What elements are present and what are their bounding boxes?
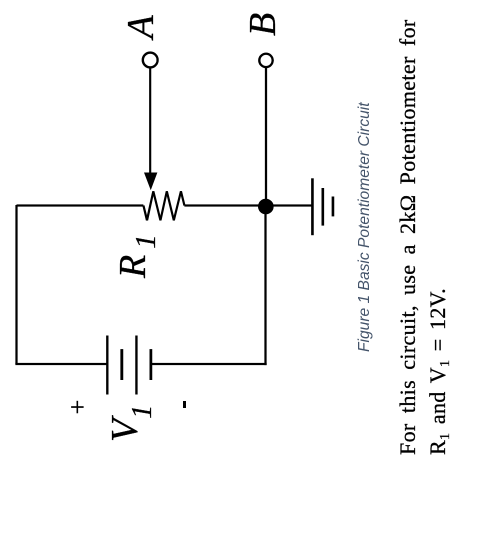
label terminal A	[122, 15, 160, 38]
paragraph line 2	[427, 288, 453, 455]
ground bar 1	[311, 178, 314, 235]
caption Figure 1 Basic Potentiometer Circuit	[357, 102, 373, 352]
battery V1 plate short bottom	[149, 349, 152, 380]
ground bar 2	[321, 188, 324, 226]
wire R1 bottom lead through junction to ground	[184, 204, 311, 206]
label minus sign of V1	[183, 401, 186, 407]
battery V1 plate short	[120, 349, 123, 380]
label plus sign of V1	[65, 397, 91, 417]
battery V1 plate long	[135, 336, 137, 395]
wiper arrow shaft (terminal A to R1)	[149, 67, 151, 175]
label R1	[114, 234, 161, 278]
node junction dot	[258, 199, 274, 215]
label terminal B	[244, 13, 282, 36]
wire junction to terminal B	[265, 68, 267, 200]
battery V1 plate long top	[106, 336, 108, 395]
wire left branch lower (battery - to bottom)	[151, 363, 267, 365]
ground bar 3	[332, 197, 335, 217]
wire bottom (battery to junction)	[264, 206, 266, 365]
wire left branch upper (to battery +)	[15, 363, 107, 365]
wiper arrowhead	[144, 173, 157, 191]
paragraph line 1	[397, 19, 419, 455]
resistor R1 zigzag	[143, 191, 184, 220]
wire R1 top lead	[17, 204, 144, 206]
wire top (V1 plus to R1 top)	[15, 205, 17, 364]
label V1	[106, 405, 157, 442]
terminal B circle	[259, 54, 272, 67]
terminal A circle	[143, 53, 158, 68]
